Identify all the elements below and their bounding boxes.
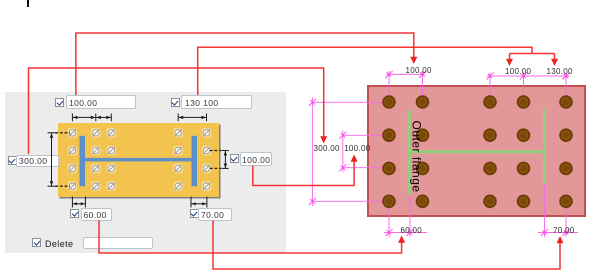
top extension col5: [565, 73, 567, 103]
dialog bolt symbols grid: [68, 128, 212, 191]
green beam outline web: [408, 150, 546, 153]
top extension col3: [489, 73, 491, 103]
dimension label 100.00 top1: [406, 67, 432, 75]
top extension col1: [388, 71, 390, 102]
dimension label 130.00: [547, 68, 573, 76]
wire E: field 60.00 to bottom dim 60.00: [99, 221, 402, 254]
wire F: field 70.00 to bottom dim 70.00: [213, 221, 560, 270]
wire D: field 100.00 right to left dim 100.00: [253, 161, 354, 186]
black dimension ticks top of yellow plate: [72, 114, 206, 122]
bottom extension col5: [565, 201, 567, 237]
top dim line 1: [387, 73, 426, 75]
green beam outline right flange: [543, 109, 546, 185]
field 300.00: [16, 155, 59, 167]
red arrowheads: [320, 57, 563, 243]
bottom dim line 60.00: [384, 232, 427, 234]
yellow plate preview: [58, 123, 219, 197]
black vertical dimension left of yellow plate: [48, 133, 71, 186]
plate bolts grid: [382, 95, 573, 208]
blue I-beam left flange: [80, 136, 86, 186]
bottom dim line 70.00: [538, 232, 578, 234]
extension row1: [312, 101, 389, 103]
bottom extension flange-right: [544, 184, 546, 237]
magenta dimension lines: [312, 71, 578, 237]
magenta X markers: [309, 71, 570, 236]
left 100.00 dim line: [342, 131, 344, 173]
black vertical dimension right of yellow plate: [210, 151, 229, 169]
checkbox 100.00 top-left: [55, 98, 64, 107]
top extension col2: [422, 71, 424, 102]
bottom extension col1: [388, 201, 390, 237]
checkbox 60.00: [70, 209, 79, 218]
extension row3: [343, 167, 390, 169]
wire C: field 300.00 to left dim 300.00: [29, 68, 324, 154]
extension row4: [312, 200, 389, 202]
field 60.00: [81, 208, 113, 221]
checkbox 130 100: [171, 98, 180, 107]
field 100.00 right: [240, 152, 272, 166]
dimension label 100.00 top2: [505, 68, 531, 76]
steel plate drawing: [367, 85, 586, 218]
blue I-beam web: [85, 158, 192, 162]
wire B: field 130 100 to top dims 100.00+130.00: [198, 47, 532, 95]
field 70.00: [198, 208, 232, 221]
left 300.00 dim line: [311, 98, 313, 207]
dimension label 60.00 bottom: [401, 227, 423, 235]
field empty next to Delete: [83, 237, 153, 249]
blue I-beam right flange: [192, 136, 198, 186]
checkbox 300.00: [8, 156, 17, 165]
black dimension ticks bottom of yellow plate: [72, 197, 207, 208]
dialog panel: [5, 92, 286, 253]
checkbox 100.00 right: [230, 154, 239, 163]
red connector lines: [29, 33, 561, 269]
cursor mark top-left: [27, 0, 29, 7]
field 130 100: [181, 95, 252, 109]
top extension col4: [523, 73, 525, 103]
bottom extension flange-left: [409, 195, 411, 237]
dimension label 70.00 bottom: [553, 227, 575, 235]
dimension label 100.00 left: [344, 145, 370, 153]
checkbox 70.00: [190, 209, 199, 218]
top dim line 2: [487, 75, 570, 77]
checkbox Delete: [32, 238, 41, 247]
extension row2: [343, 134, 390, 136]
wire A: field 100.00 top-left to top dim 100.00: [76, 33, 414, 95]
green beam outline left flange: [408, 110, 411, 195]
field 100.00 top-left: [66, 95, 137, 109]
dimension label 300.00 left: [314, 145, 340, 153]
